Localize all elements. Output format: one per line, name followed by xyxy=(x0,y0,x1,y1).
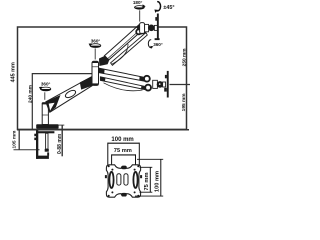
svg-text:100 mm: 100 mm xyxy=(111,137,133,143)
svg-text:105 mm: 105 mm xyxy=(12,131,18,149)
svg-text:75 mm: 75 mm xyxy=(114,148,132,154)
svg-text:250 mm: 250 mm xyxy=(181,48,187,66)
svg-text:360°: 360° xyxy=(41,82,51,87)
svg-text:360°: 360° xyxy=(91,39,101,44)
svg-text:75 mm: 75 mm xyxy=(144,172,150,190)
svg-text:±45°: ±45° xyxy=(163,5,174,11)
svg-text:195 mm: 195 mm xyxy=(181,93,187,111)
svg-text:445 mm: 445 mm xyxy=(11,62,17,82)
svg-text:360°: 360° xyxy=(153,42,163,47)
svg-text:100 mm: 100 mm xyxy=(155,171,161,192)
svg-text:0-88 mm: 0-88 mm xyxy=(57,133,63,154)
svg-text:240 mm: 240 mm xyxy=(27,85,33,103)
svg-text:180°: 180° xyxy=(133,0,143,5)
